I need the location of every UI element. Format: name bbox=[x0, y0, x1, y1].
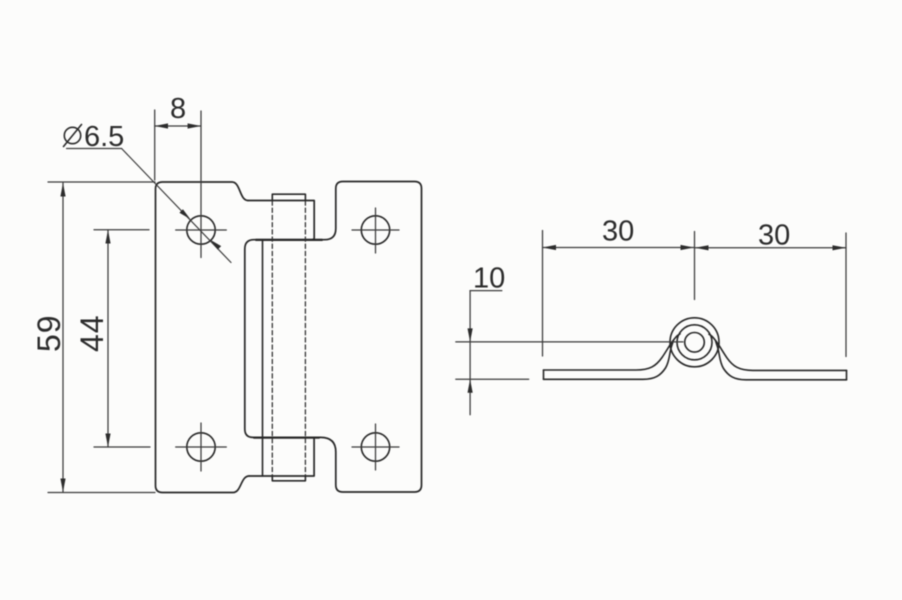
dimension 10 line bbox=[469, 291, 471, 415]
dimension 44 extension bottom bbox=[94, 446, 150, 448]
knuckle curl edge (tab left edge) bbox=[262, 241, 264, 477]
dia 6.5 label: phi symbol bbox=[64, 125, 82, 147]
hole top-left bbox=[187, 216, 215, 244]
dimension 30 left line bbox=[543, 247, 695, 249]
pin top cap bbox=[272, 194, 305, 200]
dimension 8 extension line (plate edge) bbox=[154, 110, 156, 180]
dimension 10 arrows bbox=[468, 328, 473, 392]
centerline top-right hole bbox=[352, 208, 399, 253]
right leaf profile strip bbox=[709, 334, 847, 380]
left leaf profile strip bbox=[544, 334, 681, 380]
svg-text:44: 44 bbox=[74, 314, 110, 352]
svg-text:30: 30 bbox=[758, 220, 790, 252]
centerline bottom-left hole bbox=[176, 423, 227, 471]
dimension 59 extension top bbox=[48, 181, 155, 183]
dimension 59 arrows bbox=[60, 183, 65, 492]
dia 6.5 leader diagonal bbox=[122, 149, 231, 263]
dimension 10 shelf bbox=[470, 290, 502, 292]
hidden pin line left (dashed) bbox=[271, 201, 273, 476]
pin bottom cap bbox=[272, 476, 305, 481]
knuckle pin circle bbox=[685, 333, 705, 353]
centerline top-left hole bbox=[176, 111, 227, 258]
left leaf lower knuckle wrap bbox=[249, 437, 314, 476]
svg-text:59: 59 bbox=[31, 314, 67, 352]
dimension 59 line bbox=[62, 183, 64, 492]
dimension 10 extension center height bbox=[456, 341, 683, 343]
knuckle outer circle bbox=[670, 318, 719, 367]
left leaf upper knuckle wrap bbox=[245, 201, 322, 438]
dimension 8 line bbox=[155, 125, 201, 127]
svg-text:10: 10 bbox=[473, 263, 505, 295]
hole top-right bbox=[361, 216, 389, 244]
dimension 30 right line bbox=[695, 247, 846, 249]
left leaf outline bbox=[156, 182, 250, 493]
dimension 44 extension top bbox=[94, 229, 149, 231]
dimension 30 arrows bbox=[543, 245, 847, 251]
dia 6.5 leader arrowheads bbox=[179, 209, 221, 249]
svg-text:30: 30 bbox=[602, 216, 634, 248]
knuckle middle circle bbox=[677, 325, 712, 360]
dimension 30 center extension line bbox=[694, 232, 696, 300]
right leaf outline with middle tab bbox=[312, 182, 421, 493]
dimension 59 extension bottom bbox=[48, 492, 155, 494]
dia 6.5 leader underline bbox=[67, 148, 122, 150]
dimension 30 right extension line bbox=[845, 233, 847, 357]
hole bottom-left bbox=[187, 433, 215, 461]
dimension 30 left extension line bbox=[542, 231, 544, 357]
hole bottom-right bbox=[361, 433, 389, 461]
dimension 10 extension plate bottom bbox=[456, 378, 529, 380]
dimension 44 line bbox=[107, 230, 109, 447]
dimension 44 arrows bbox=[105, 230, 110, 447]
centerline bottom-right hole bbox=[352, 424, 399, 470]
dimension 8 arrows bbox=[155, 123, 201, 128]
hidden pin line right (dashed) bbox=[304, 201, 306, 476]
svg-text:8: 8 bbox=[170, 93, 186, 125]
